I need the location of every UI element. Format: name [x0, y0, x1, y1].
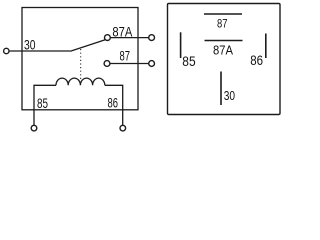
svg-text:87: 87	[120, 48, 131, 63]
pin blade 87A	[205, 40, 243, 42]
svg-text:30: 30	[224, 89, 235, 103]
wire 87	[110, 63, 148, 65]
relay base outline (pinout view)	[168, 4, 281, 115]
terminal 86	[120, 125, 126, 131]
svg-text:87A: 87A	[213, 42, 233, 57]
terminal 87A	[149, 35, 155, 41]
terminal 85	[31, 125, 37, 131]
wire 30 to switch pivot	[9, 50, 70, 52]
contact 87	[104, 61, 110, 67]
svg-text:86: 86	[108, 95, 119, 110]
dotted actuator link	[80, 49, 82, 81]
wire coil right lead	[105, 85, 123, 125]
svg-text:87A: 87A	[112, 25, 132, 40]
relay body K1 (schematic outline)	[22, 8, 138, 110]
pin blade 85	[180, 32, 182, 58]
svg-text:86: 86	[250, 53, 263, 68]
switch arm (common 30)	[70, 40, 105, 52]
svg-text:87: 87	[217, 16, 228, 30]
contact 87A	[105, 35, 111, 41]
wire 87A	[111, 37, 149, 39]
terminal 30	[4, 48, 9, 53]
svg-text:85: 85	[37, 96, 48, 111]
coil L1	[56, 78, 105, 85]
svg-text:85: 85	[182, 54, 195, 69]
svg-text:30: 30	[24, 38, 36, 53]
pin blade 87	[204, 13, 242, 15]
wire coil left lead	[34, 85, 56, 125]
terminal 87	[149, 61, 155, 67]
pin blade 30	[220, 72, 222, 106]
pin blade 86	[265, 34, 267, 59]
